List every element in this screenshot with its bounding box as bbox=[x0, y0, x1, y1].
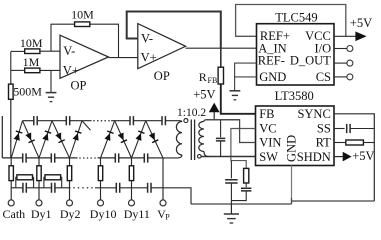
svg-text:Dy10: Dy10 bbox=[90, 207, 117, 221]
wire cap row b bbox=[26, 187, 51, 189]
capacitor CF (VC shunt) bbox=[225, 161, 237, 204]
wire top rail c bbox=[70, 120, 92, 122]
svg-text:1M: 1M bbox=[23, 55, 40, 69]
label Dy1 bbox=[31, 207, 52, 221]
resistor stage R6 bbox=[44, 175, 62, 188]
svg-text:TLC549: TLC549 bbox=[275, 10, 317, 24]
capacitor rail C2 bbox=[51, 153, 54, 162]
label 10M R1 bbox=[20, 36, 43, 50]
svg-text:SHDN: SHDN bbox=[297, 150, 331, 164]
wire bottom rail b bbox=[26, 157, 51, 159]
resistor 1M (R2) bbox=[11, 68, 60, 73]
wire bottom rail d bbox=[98, 157, 116, 159]
ground U1 V+ (stem) bbox=[50, 70, 52, 92]
pin REF- bbox=[258, 54, 285, 68]
polarity dot secondary bbox=[184, 119, 188, 123]
svg-text:V-: V- bbox=[141, 32, 153, 46]
pin VC bbox=[259, 122, 276, 136]
wire bottom rail f bbox=[148, 157, 163, 159]
label Dy11 bbox=[124, 207, 150, 221]
ground (main) bbox=[224, 204, 239, 223]
pin FB bbox=[259, 107, 274, 121]
wire top rail f bbox=[165, 120, 168, 122]
wire primary top bbox=[204, 120, 240, 122]
diode D6 bbox=[101, 121, 115, 158]
diode D5 bbox=[70, 121, 83, 158]
pin CS bbox=[316, 70, 331, 84]
capacitor snubber bbox=[216, 120, 225, 157]
svg-text:P: P bbox=[165, 213, 170, 222]
svg-text:1:10.2: 1:10.2 bbox=[177, 107, 206, 119]
transformer primary winding bbox=[199, 121, 204, 151]
label RFB bbox=[199, 70, 217, 85]
wire U2 output to A_IN bbox=[186, 47, 257, 49]
pin GND bbox=[259, 70, 286, 84]
pin VCC bbox=[305, 29, 331, 43]
wire CS terminal bbox=[334, 74, 353, 80]
wire VC compensation bbox=[231, 129, 256, 169]
wire cap row a bbox=[11, 187, 23, 189]
wire left edge bbox=[1, 116, 3, 158]
resistor 10M (feedback, R4) bbox=[75, 22, 90, 27]
svg-text:SS: SS bbox=[317, 122, 331, 136]
label 1:10.2 bbox=[177, 107, 206, 119]
label U1 V- bbox=[63, 44, 75, 58]
svg-text:SW: SW bbox=[259, 150, 278, 164]
pin SS bbox=[317, 122, 331, 136]
wire D_OUT terminal bbox=[334, 60, 353, 66]
label +5V (SHDN) bbox=[352, 149, 374, 163]
wire secondary bottom bbox=[163, 155, 182, 158]
svg-text:RT: RT bbox=[316, 136, 332, 150]
wire I/O terminal bbox=[334, 46, 353, 52]
capacitor row C10 bbox=[52, 183, 55, 193]
capacitor rail C4 bbox=[144, 153, 147, 162]
label U2 V- bbox=[141, 32, 153, 46]
pin SYNC bbox=[297, 107, 330, 121]
svg-text:D_OUT: D_OUT bbox=[290, 54, 331, 68]
supply arrow +5V up bbox=[209, 103, 220, 121]
wire primary bottom bbox=[204, 151, 209, 156]
svg-text:10M: 10M bbox=[20, 36, 43, 50]
diode D3 bbox=[39, 121, 52, 158]
wire REF- / GND tie bbox=[235, 63, 257, 91]
wire U2 output down bbox=[220, 48, 222, 67]
capacitor top C6 bbox=[66, 116, 69, 125]
label U2 V+ bbox=[141, 51, 157, 65]
svg-text:Dy11: Dy11 bbox=[124, 207, 150, 221]
svg-text:V+: V+ bbox=[141, 51, 157, 65]
IC LT3580 box bbox=[256, 106, 335, 166]
wire bottom rail e bbox=[119, 157, 145, 159]
node Dy10 column + resistor bbox=[98, 158, 104, 206]
svg-text:Dy2: Dy2 bbox=[60, 207, 81, 221]
polarity dot primary bbox=[198, 155, 202, 159]
pin SW bbox=[259, 150, 278, 164]
svg-text:V+: V+ bbox=[63, 63, 79, 77]
svg-text:VC: VC bbox=[259, 122, 276, 136]
wire VP to ground rail bbox=[163, 188, 191, 204]
label Cath bbox=[3, 207, 26, 221]
wire cap row e bbox=[120, 187, 148, 189]
label U1 V+ bbox=[63, 63, 79, 77]
diode D7 bbox=[115, 121, 132, 158]
resistor RT bbox=[334, 140, 374, 145]
svg-text:R: R bbox=[199, 70, 207, 84]
wire SW to primary bbox=[201, 156, 255, 158]
diode D9 bbox=[146, 121, 163, 158]
label 10M R4 bbox=[71, 8, 94, 22]
label 500M R3 bbox=[13, 85, 42, 99]
node Cath column + resistor bbox=[8, 158, 14, 206]
label 1M R2 bbox=[23, 55, 40, 69]
label U1 OP bbox=[71, 79, 87, 93]
transformer secondary winding bbox=[176, 121, 182, 155]
svg-text:OP: OP bbox=[154, 69, 170, 83]
label TLC549 bbox=[275, 10, 317, 24]
label U2 OP bbox=[154, 69, 170, 83]
svg-text:GND: GND bbox=[259, 70, 286, 84]
capacitor top C5 bbox=[34, 116, 37, 125]
label +5V (at RFB) bbox=[193, 87, 215, 101]
svg-text:REF-: REF- bbox=[258, 54, 285, 68]
pin REF+ bbox=[260, 29, 290, 43]
capacitor top C8 bbox=[162, 116, 165, 125]
resistor stage R5 bbox=[16, 175, 34, 188]
svg-text:SYNC: SYNC bbox=[297, 107, 330, 121]
svg-text:FB: FB bbox=[259, 107, 274, 121]
wire input bus bbox=[10, 51, 12, 84]
resistor RFB bbox=[218, 67, 223, 84]
wire top rail a bbox=[23, 120, 34, 122]
pin GND (rotated) bbox=[284, 135, 298, 162]
node VP column bbox=[160, 158, 166, 206]
label Dy2 bbox=[60, 207, 81, 221]
wire bottom rail a bbox=[2, 157, 22, 159]
wire VIN to +5V rail bbox=[205, 120, 255, 143]
wire cap row d bbox=[95, 187, 116, 189]
pin A_IN bbox=[258, 41, 286, 55]
wire top rail e bbox=[134, 120, 162, 122]
svg-text:+5V: +5V bbox=[352, 149, 374, 163]
pin I/O bbox=[315, 41, 332, 55]
label Dy10 bbox=[90, 207, 117, 221]
wire SHDN +5V bbox=[334, 152, 352, 162]
svg-text:LT3580: LT3580 bbox=[275, 89, 314, 103]
dots top rail bbox=[93, 120, 110, 122]
label VP bbox=[157, 207, 170, 221]
label LT3580 bbox=[275, 89, 314, 103]
resistor 10M (input, R1) bbox=[11, 49, 60, 54]
capacitor row C11 bbox=[116, 183, 119, 193]
wire SYNC to gnd bus bbox=[334, 114, 374, 201]
wire bottom rail c bbox=[55, 157, 78, 159]
capacitor rail C3 bbox=[115, 153, 118, 162]
pin RT bbox=[316, 136, 332, 150]
capacitor CSS bbox=[334, 124, 374, 133]
pin D_OUT bbox=[290, 54, 331, 68]
wire feedback loop U2 bbox=[127, 12, 221, 49]
capacitor row C9 bbox=[23, 183, 26, 193]
wire RFB to FB bbox=[221, 84, 256, 114]
wire stub after D5 bbox=[82, 121, 91, 131]
wire top rail b bbox=[37, 120, 66, 122]
svg-text:10M: 10M bbox=[71, 8, 94, 22]
wire ground rail bbox=[191, 198, 374, 204]
wire U1 output bbox=[109, 57, 138, 59]
wire top rail d bbox=[111, 120, 130, 122]
wire cap row f bbox=[151, 187, 163, 189]
svg-text:FB: FB bbox=[208, 76, 218, 85]
svg-text:500M: 500M bbox=[13, 85, 42, 99]
capacitor CC (comp) bbox=[231, 183, 251, 201]
supply arrow +5V right (VCC) bbox=[355, 32, 366, 42]
svg-text:+5V: +5V bbox=[350, 16, 372, 30]
svg-text:V-: V- bbox=[63, 44, 75, 58]
wire GND pin down bbox=[291, 166, 293, 205]
dots bottom rail bbox=[79, 157, 96, 159]
op-amp U1 bbox=[60, 35, 109, 78]
wire secondary top bbox=[166, 121, 182, 122]
wire cap row c bbox=[55, 187, 71, 189]
IC TLC549 box bbox=[257, 24, 335, 85]
svg-text:VIN: VIN bbox=[259, 136, 281, 150]
capacitor top C7 bbox=[130, 116, 133, 125]
label +5V (VCC) bbox=[350, 16, 372, 30]
svg-text:+5V: +5V bbox=[193, 87, 215, 101]
svg-text:OP: OP bbox=[71, 79, 87, 93]
node Dy11 column + resistor bbox=[129, 158, 135, 206]
transformer core bbox=[191, 120, 194, 161]
node Dy1 column + resistor bbox=[36, 158, 42, 206]
diode D4 bbox=[52, 121, 70, 158]
svg-text:Dy1: Dy1 bbox=[31, 207, 52, 221]
svg-text:Cath: Cath bbox=[3, 207, 26, 221]
resistor RC (comp) bbox=[244, 168, 249, 183]
diode D2 bbox=[23, 121, 40, 158]
svg-text:CS: CS bbox=[316, 70, 331, 84]
op-amp U2 bbox=[138, 24, 186, 69]
pin SHDN bbox=[297, 150, 331, 164]
diode D8 bbox=[132, 121, 146, 158]
ground TLC549 bbox=[230, 91, 241, 100]
resistor 500M (R3) bbox=[9, 84, 14, 158]
wire REF+ to VCC loop bbox=[236, 5, 346, 37]
ground U1 V+ bbox=[46, 93, 57, 102]
pin VIN bbox=[259, 136, 281, 150]
wire VCC +5V bbox=[334, 35, 356, 37]
capacitor rail C1 bbox=[23, 153, 26, 162]
capacitor row C12 bbox=[148, 183, 151, 193]
diode D1 bbox=[11, 121, 22, 158]
wire feedback loop U1 bbox=[51, 24, 119, 58]
dots cap row bbox=[73, 187, 93, 189]
node Dy2 column + resistor bbox=[67, 158, 73, 206]
